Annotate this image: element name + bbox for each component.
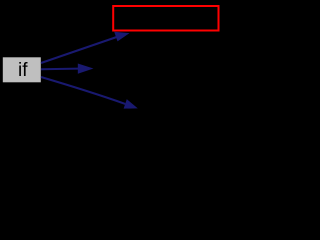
svg-text:if: if [18,60,28,81]
